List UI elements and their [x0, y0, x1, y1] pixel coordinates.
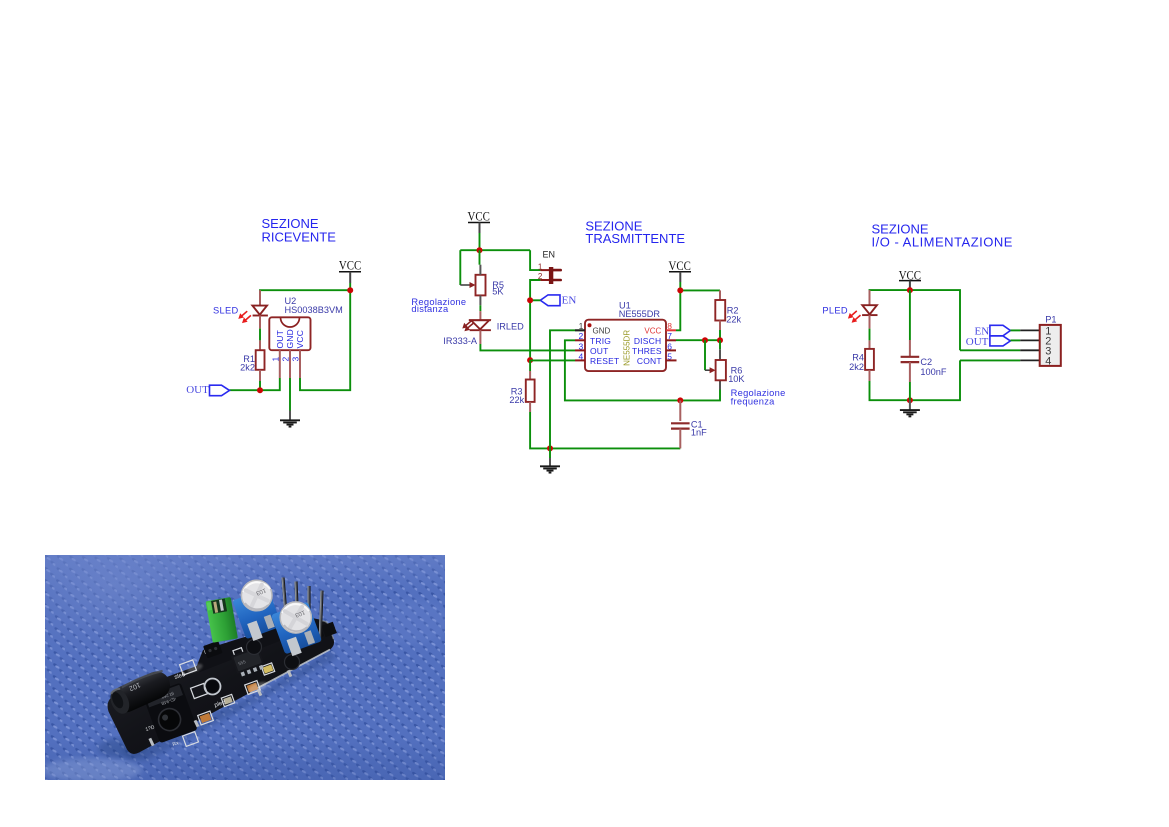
- svg-text:1nF: 1nF: [691, 427, 707, 437]
- junction ground rail: [547, 445, 553, 451]
- junction VCC right: [677, 287, 683, 293]
- svg-text:PLED: PLED: [822, 305, 848, 315]
- svg-text:OUT: OUT: [590, 346, 609, 356]
- port OUT flag (to P1 pin2): [966, 336, 1011, 348]
- header pins: [282, 578, 322, 642]
- junction ground rail: [907, 397, 913, 403]
- PLED cathode pin / wires to R4: [869, 315, 871, 329]
- wire top horizontal VCC net: [260, 290, 350, 305]
- P1 pin stubs (black): [1020, 330, 1039, 360]
- black ring under trimmer2: [285, 655, 300, 670]
- svg-text:GND: GND: [593, 326, 611, 335]
- board shadow: [122, 650, 336, 760]
- IRLED cathode pin: [479, 330, 481, 344]
- wire port EN stub: [530, 299, 540, 301]
- SOIC-8 chip: [231, 646, 266, 678]
- capacitor C2 symbol: [901, 357, 920, 362]
- potentiometer R5 wiper arrow: [460, 282, 475, 288]
- wire R4 to ground rail: [870, 360, 961, 400]
- resistor R4: [865, 349, 874, 370]
- potentiometer R6 body: [716, 360, 726, 380]
- svg-text:EN: EN: [543, 249, 556, 259]
- connector P1 body: [1040, 325, 1061, 366]
- svg-text:VCC: VCC: [339, 257, 361, 272]
- junction DISCH/R2/R6: [717, 337, 723, 343]
- R6 pins (gray): [719, 349, 721, 360]
- svg-text:2k2: 2k2: [240, 362, 255, 372]
- svg-text:VCC: VCC: [295, 330, 305, 349]
- R3 top pin: [529, 371, 531, 380]
- port EN (left pointing flag): [540, 294, 576, 306]
- U1 pin stubs right (pin8 red): [666, 329, 676, 331]
- PLED emission arrows: [848, 311, 861, 323]
- PCB lit edge: [250, 650, 330, 693]
- IR receiver cube: [143, 683, 198, 744]
- svg-text:22k: 22k: [509, 395, 524, 405]
- stray pins below board: [148, 670, 292, 747]
- junction RESET net: [527, 357, 533, 363]
- wire GND to P1 pin4: [960, 359, 1020, 361]
- wire OUT flag to P1 pin2: [1010, 339, 1020, 341]
- wire VCC to R2: [680, 289, 720, 291]
- svg-text:R4: R4: [852, 352, 864, 362]
- resistor R2: [715, 300, 725, 321]
- jumper J1 body: [549, 267, 561, 284]
- svg-text:2: 2: [280, 357, 290, 362]
- svg-text:1: 1: [538, 262, 543, 271]
- wire R2 junction to R6 top: [719, 340, 721, 349]
- wire VCC right stub: [679, 282, 681, 290]
- wire RESET to U1 pin4: [530, 359, 575, 361]
- SLED emission arrows (red): [238, 311, 251, 323]
- svg-text:10K: 10K: [728, 374, 745, 384]
- svg-text:VCC: VCC: [669, 258, 691, 273]
- svg-text:2k2: 2k2: [849, 362, 864, 372]
- junction TRIG/THRES/C1: [677, 397, 683, 403]
- wire OUT net: port to R1 to pin1: [230, 378, 280, 390]
- IR emitter barrel: [107, 667, 175, 717]
- capacitor C1 symbol: [671, 423, 690, 428]
- wire VCC to R5 top: [479, 250, 481, 265]
- wire/pins below SLED to R1: [259, 316, 261, 329]
- mounting hole: [205, 679, 221, 695]
- U2 pin stubs: [279, 350, 281, 378]
- diode SLED D? anode pin: [259, 290, 261, 305]
- U1 pin1 marker dot: [588, 323, 592, 327]
- potentiometer R5 body: [476, 275, 486, 296]
- jumper J1 pin1 stub: [540, 269, 549, 271]
- svg-text:P1: P1: [1045, 315, 1056, 325]
- ground symbol (io): [900, 400, 920, 416]
- dark component row along top edge: [196, 618, 322, 672]
- U1 pin stubs left: [575, 329, 585, 331]
- svg-text:RICEVENTE: RICEVENTE: [262, 230, 337, 245]
- svg-text:DISCH: DISCH: [634, 336, 661, 346]
- pin below R1: [259, 370, 261, 381]
- wire to R5 wiper: [459, 250, 461, 285]
- svg-text:OUT: OUT: [186, 384, 209, 396]
- SMD components: [200, 664, 274, 723]
- junction VCC left: [477, 247, 483, 253]
- wire DISCH net: [676, 339, 720, 341]
- capacitor C1 top pin: [679, 400, 681, 421]
- wire VCC to pin8: [676, 290, 680, 330]
- svg-text:NE555DR: NE555DR: [619, 309, 661, 319]
- power flag VCC (io): [899, 267, 921, 290]
- svg-text:VCC: VCC: [644, 326, 661, 335]
- fabric background: [45, 555, 445, 780]
- silkscreen texts: [145, 632, 320, 748]
- diode IRLED anode pin: [479, 311, 481, 320]
- wire VCC to jumper pin1: [530, 250, 540, 270]
- wire EN flag to P1 pin1: [1010, 329, 1020, 331]
- svg-text:4: 4: [1045, 356, 1051, 368]
- svg-text:NE555DR: NE555DR: [623, 330, 632, 366]
- svg-text:EN: EN: [562, 294, 577, 306]
- diode IRLED symbol IR333-A: [462, 320, 491, 331]
- IC U2 HS0038B3VM body: [269, 317, 310, 350]
- black ring under trimmer1: [247, 640, 262, 655]
- port EN flag (to P1 pin1): [975, 325, 1011, 337]
- potentiometer R6 wiper arrow: [705, 367, 716, 373]
- diode PLED anode pin: [869, 290, 871, 305]
- svg-text:distanza: distanza: [411, 304, 449, 314]
- wire R5 bottom to IRLED: [479, 305, 481, 311]
- svg-text:THRES: THRES: [632, 346, 662, 356]
- svg-text:RESET: RESET: [590, 356, 619, 366]
- P1 pin numbers: [1045, 325, 1051, 367]
- wire top VCC rail: [870, 290, 961, 350]
- green jumper: [206, 597, 238, 643]
- power flag VCC (receiver): [339, 257, 361, 283]
- trimmer pot 2 (front): [271, 598, 323, 659]
- photograph of sensor module: [42, 555, 450, 782]
- trimmer pot 1 (rear): [232, 577, 283, 643]
- svg-text:TRIG: TRIG: [590, 336, 611, 346]
- wire ground stub: [549, 448, 551, 458]
- wire to R6 wiper: [704, 340, 706, 370]
- wire VCC stub down to node: [349, 283, 351, 290]
- R4 bottom pin: [869, 370, 871, 381]
- power flag VCC (transmitter right): [669, 258, 692, 282]
- ground symbol (transmitter): [540, 458, 560, 473]
- svg-text:CONT: CONT: [637, 356, 662, 366]
- svg-text:OUT: OUT: [966, 336, 989, 348]
- wire TRIG net: [565, 340, 720, 400]
- wire right vertical VCC net to pin3 wire: [300, 290, 350, 390]
- svg-text:IR333-A: IR333-A: [443, 336, 478, 346]
- svg-text:GND: GND: [285, 329, 295, 349]
- diode PLED symbol: [862, 305, 877, 315]
- svg-text:22k: 22k: [726, 314, 741, 324]
- junction DISCH/wiper: [702, 337, 708, 343]
- port OUT (receiver output): [186, 384, 229, 396]
- wire R3 to ground rail: [530, 412, 680, 448]
- ground symbol (receiver): [280, 411, 300, 427]
- R2 top pin: [719, 290, 721, 300]
- black 2-pin header (EN): [203, 641, 222, 659]
- glare highlights: [247, 680, 269, 694]
- svg-text:I/O - ALIMENTAZIONE: I/O - ALIMENTAZIONE: [872, 235, 1013, 250]
- svg-text:3: 3: [290, 357, 300, 362]
- svg-text:SLED: SLED: [213, 306, 239, 316]
- power flag VCC (transmitter left): [468, 209, 491, 233]
- capacitor C2 top pin: [909, 290, 911, 340]
- resistor R1: [256, 350, 265, 370]
- svg-text:100nF: 100nF: [920, 367, 946, 377]
- wire GND pin2 down: [289, 378, 291, 411]
- junction at R1 bottom: [257, 387, 263, 393]
- svg-text:frequenza: frequenza: [731, 396, 776, 406]
- wire GND net pin1: [550, 330, 585, 448]
- svg-text:HS0038B3VM: HS0038B3VM: [285, 305, 343, 315]
- wire VCC stub: [479, 233, 481, 250]
- IC U1 NE555DR body: [585, 320, 666, 371]
- svg-text:IRLED: IRLED: [497, 322, 524, 332]
- svg-text:TRASMITTENTE: TRASMITTENTE: [585, 231, 685, 246]
- header pin bases: [283, 617, 337, 650]
- svg-text:OUT: OUT: [275, 330, 285, 349]
- C1 bottom pin: [679, 429, 681, 449]
- R2 bottom pin: [719, 321, 721, 331]
- resistor R3: [526, 380, 535, 402]
- wire R2 to DISCH node: [719, 330, 721, 340]
- wire jumper pin2 to EN net: [540, 279, 549, 281]
- svg-text:VCC: VCC: [468, 209, 490, 224]
- junction VCC: [907, 287, 913, 293]
- wire VCC to P1 pin3: [960, 349, 1020, 351]
- wire OUT net: IRLED to U1 pin3: [480, 344, 575, 350]
- silkscreen boxes: [180, 648, 275, 747]
- wire VCC node horizontals: [460, 249, 530, 251]
- R5 pins (gray): [479, 265, 481, 275]
- R3 bottom pin: [529, 402, 531, 412]
- junction EN port: [527, 297, 533, 303]
- C2 bottom pin: [909, 362, 911, 382]
- svg-text:5K: 5K: [492, 287, 504, 297]
- svg-text:C2: C2: [920, 357, 932, 367]
- wire EN net down to R3: [529, 360, 531, 371]
- diode SLED symbol: [252, 306, 268, 316]
- PCB board: [108, 621, 334, 754]
- junction at VCC top: [347, 287, 353, 293]
